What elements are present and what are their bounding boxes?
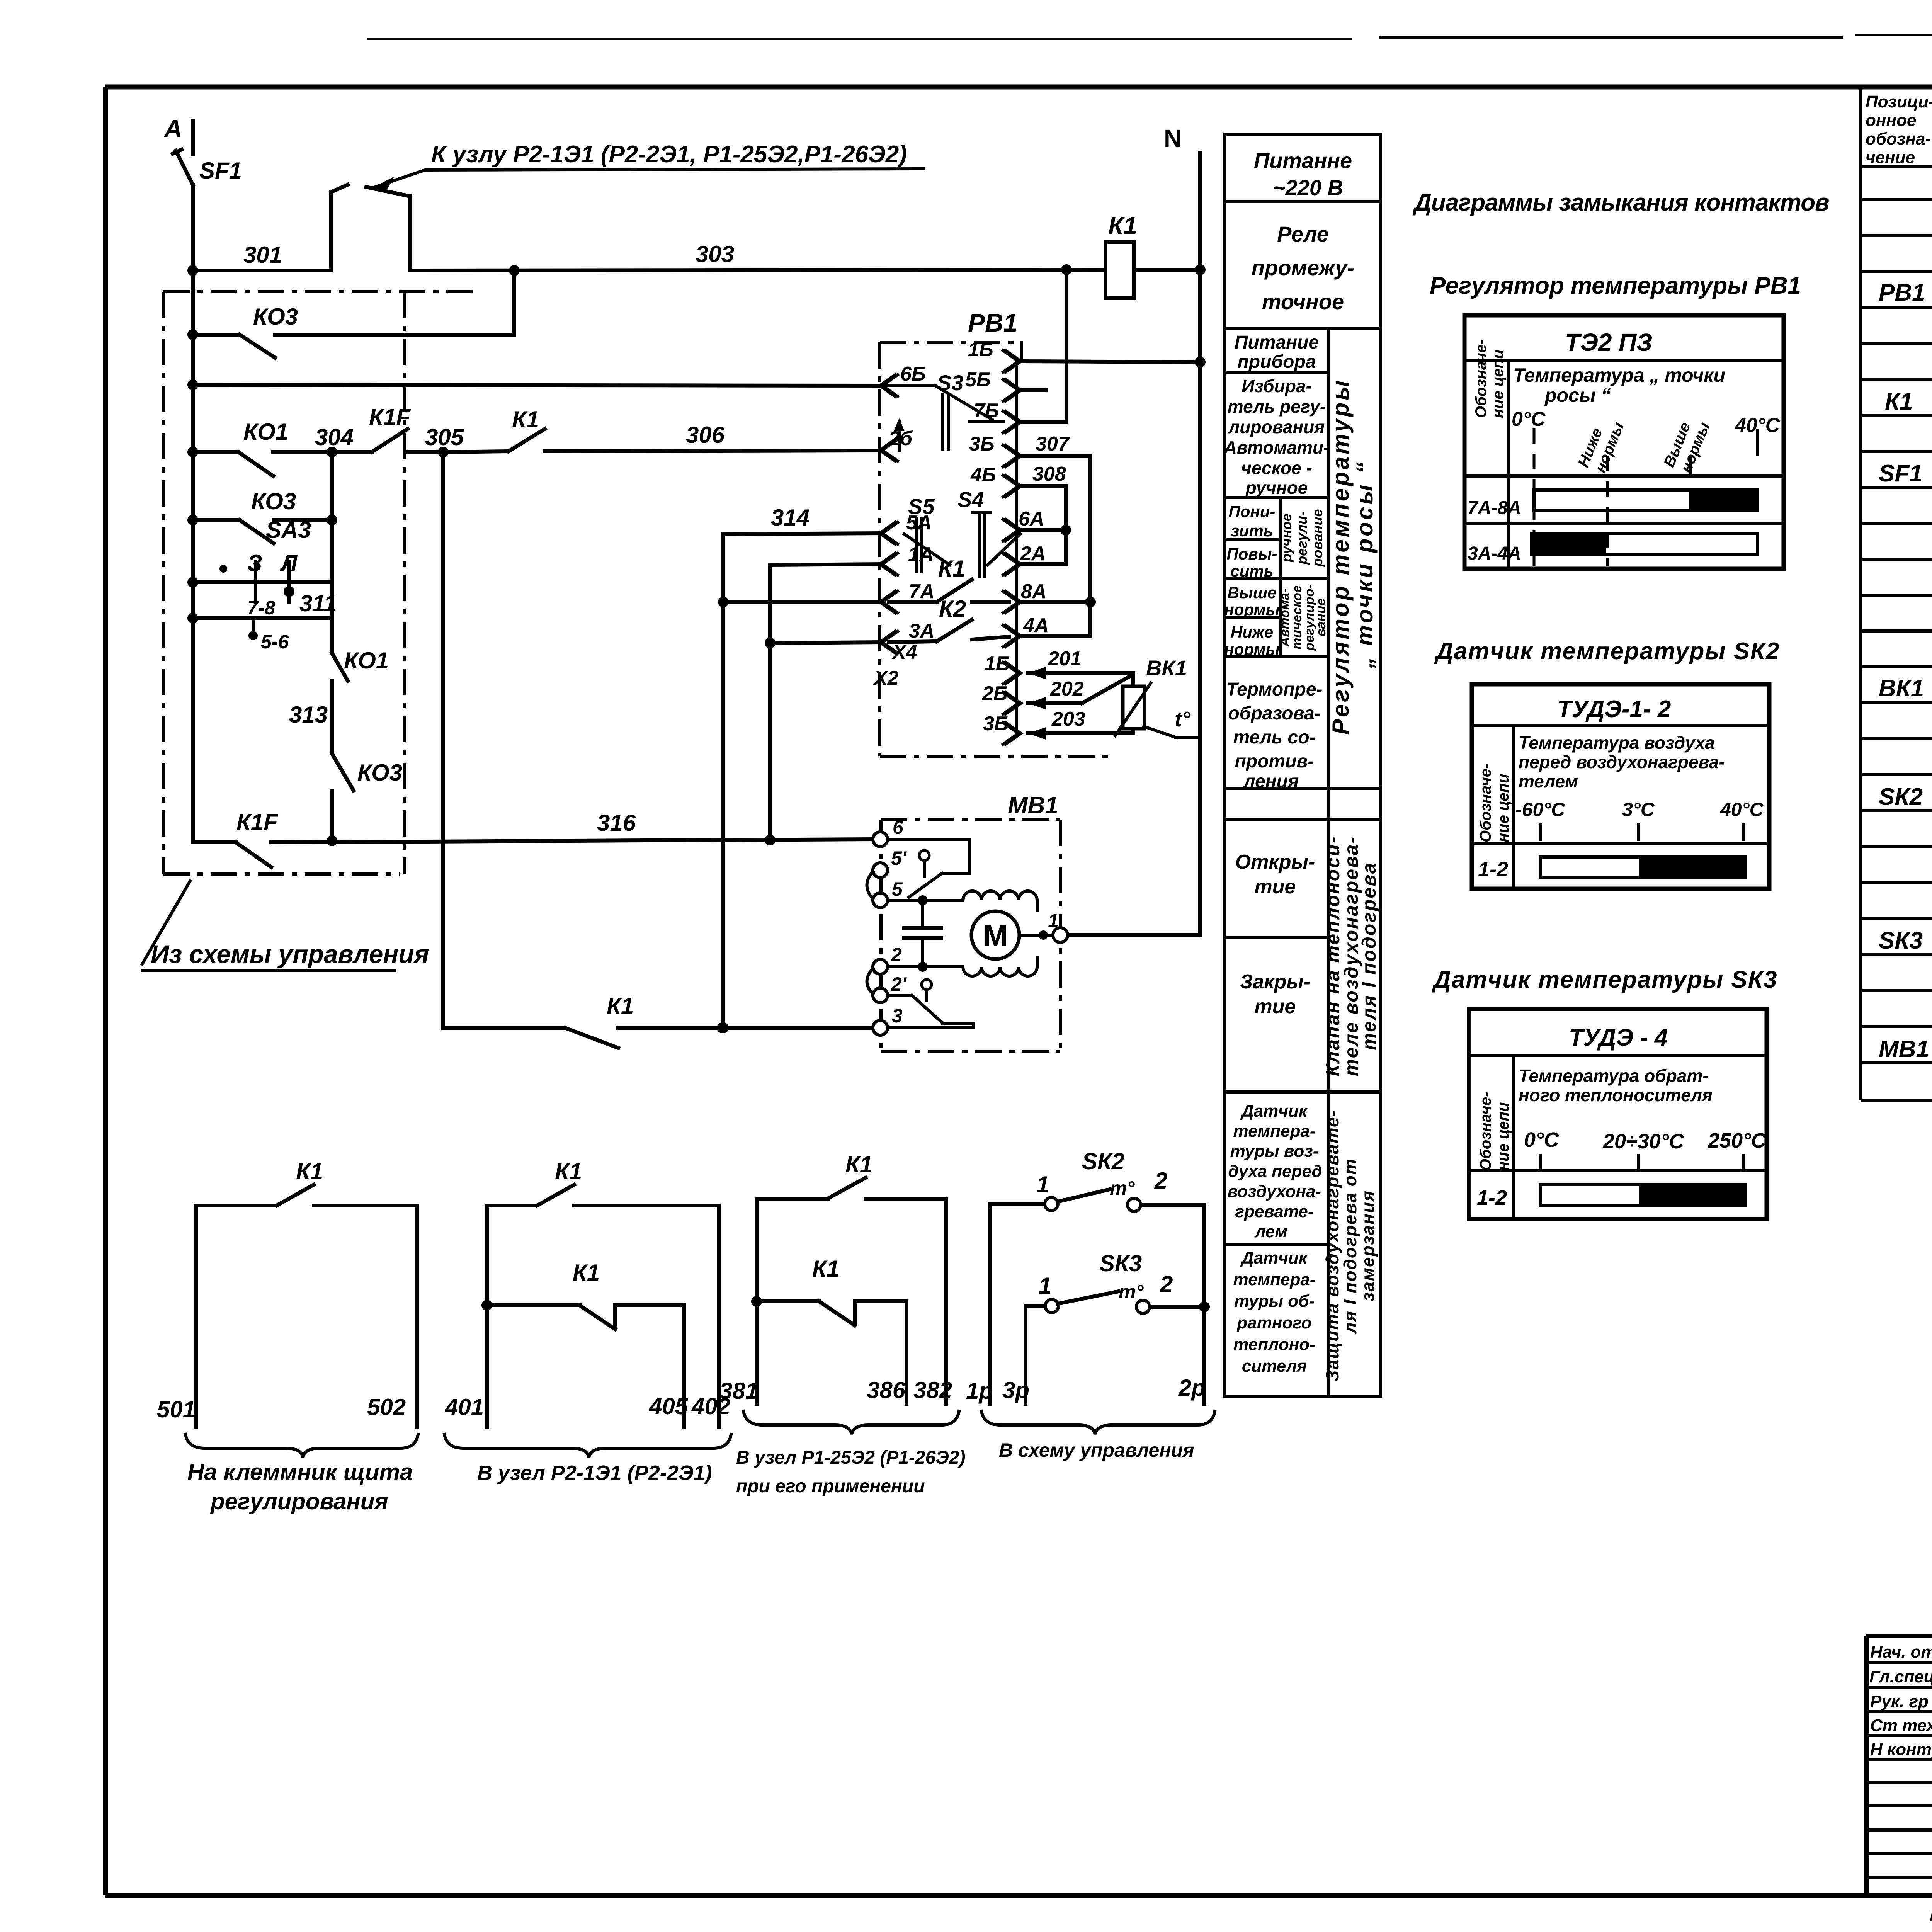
svg-text:t°: t° [1175, 707, 1191, 731]
svg-text:К1: К1 [555, 1158, 582, 1184]
middle legend table grid [1225, 134, 1381, 1396]
svg-text:К1: К1 [1108, 212, 1137, 240]
svg-text:1: 1 [1039, 1273, 1051, 1299]
svg-text:SК2: SК2 [1082, 1148, 1124, 1174]
svg-text:ления: ления [1243, 771, 1299, 792]
svg-text:КО1: КО1 [344, 648, 389, 673]
regulator РВ1 boundary [880, 308, 1113, 756]
svg-text:ние цепи: ние цепи [1490, 350, 1507, 418]
svg-text:2А: 2А [1020, 543, 1046, 565]
signature rows text [1869, 1642, 1932, 1759]
svg-text:туры воз-: туры воз- [1230, 1142, 1319, 1161]
svg-text:381: 381 [719, 1378, 758, 1404]
scan edge artifact top [367, 34, 1932, 40]
boundary dash-dot control panel [163, 292, 479, 874]
svg-text:В узел Р1-25Э2 (Р1-26Э2): В узел Р1-25Э2 (Р1-26Э2) [736, 1447, 965, 1468]
svg-text:замерзания: замерзания [1358, 1190, 1378, 1301]
svg-text:Обозначе-: Обозначе- [1473, 339, 1490, 418]
svg-text:2: 2 [891, 944, 902, 966]
svg-text:при его применении: при его применении [736, 1476, 925, 1497]
svg-text:386: 386 [867, 1377, 906, 1403]
svg-text:S5: S5 [908, 494, 935, 519]
svg-text:РВ1: РВ1 [1879, 279, 1925, 306]
callout Из схемы управления [142, 881, 429, 971]
svg-text:образова-: образова- [1228, 703, 1320, 724]
cell Открытие [1235, 851, 1315, 898]
svg-text:307: 307 [1036, 433, 1070, 455]
parts table grid [1861, 87, 1932, 1100]
svg-text:1: 1 [1036, 1172, 1049, 1197]
МВ1 terminal 5 [873, 878, 963, 908]
svg-text:502: 502 [367, 1394, 406, 1420]
wire 203 to ВК1 [1028, 708, 1133, 740]
svg-text:К1: К1 [812, 1256, 839, 1282]
wire pin 6А [1022, 525, 1071, 536]
svg-text:SF1: SF1 [199, 158, 242, 184]
svg-text:SК2: SК2 [1879, 784, 1923, 810]
title block outer [1866, 1636, 1932, 1895]
svg-text:301: 301 [243, 242, 282, 268]
wire 314 to pin 5А [723, 505, 882, 534]
svg-text:~220 В: ~220 В [1273, 175, 1343, 200]
svg-text:тие: тие [1255, 876, 1296, 898]
svg-text:3А: 3А [909, 620, 934, 642]
wire pin 4А [1022, 634, 1090, 638]
wire K1 bottom row [443, 993, 873, 1048]
wire pin 3Б 307 riser [1022, 456, 1090, 636]
svg-text:6: 6 [893, 816, 904, 838]
pin chevrons РВ1 left column [880, 375, 898, 653]
svg-text:5-6: 5-6 [261, 631, 289, 653]
svg-text:SА3: SА3 [266, 517, 311, 543]
svg-text:ТЭ2 ПЗ: ТЭ2 ПЗ [1565, 328, 1652, 356]
svg-text:1Б: 1Б [985, 653, 1010, 675]
svg-text:Рук. гр: Рук. гр [1870, 1692, 1929, 1711]
svg-text:4А: 4А [1023, 614, 1049, 637]
svg-text:телем: телем [1519, 771, 1578, 791]
cell Питание 220В [1254, 148, 1352, 200]
limit switch lower [912, 980, 974, 1028]
svg-text:2р: 2р [1178, 1375, 1206, 1401]
svg-text:лем: лем [1254, 1222, 1287, 1241]
relay coil K1 [1105, 212, 1137, 298]
header Позиционное обозначение [1866, 92, 1932, 167]
svg-text:N: N [1164, 124, 1182, 152]
wire pin 4Б 308 riser [1022, 486, 1066, 564]
svg-text:воздухона-: воздухона- [1228, 1182, 1321, 1201]
МВ1 terminal 6 [873, 816, 969, 873]
svg-text:Температура обрат-: Температура обрат- [1519, 1066, 1709, 1086]
motor M [971, 911, 1019, 959]
svg-text:Ниже: Ниже [1231, 623, 1273, 641]
wire riser 314 [718, 534, 729, 1033]
svg-text:Х4: Х4 [891, 641, 917, 663]
wire pin 1Б to N [1022, 357, 1206, 367]
svg-text:нормы: нормы [1224, 600, 1279, 619]
svg-text:К1: К1 [845, 1151, 872, 1177]
svg-text:Гл.спец.: Гл.спец. [1869, 1667, 1932, 1686]
svg-text:ческое -: ческое - [1241, 458, 1312, 478]
svg-text:КО1: КО1 [243, 419, 288, 445]
cell Выше нормы [1224, 583, 1279, 619]
cell Реле промежуточное [1252, 222, 1354, 314]
svg-text:К1: К1 [296, 1158, 323, 1184]
aux circuit SK2 SK3 [966, 1148, 1215, 1461]
cell Автоматическое регулирование (rotated) [1277, 584, 1328, 651]
svg-text:сителя: сителя [1242, 1357, 1307, 1376]
svg-text:теля I подогрева: теля I подогрева [1358, 862, 1380, 1050]
svg-text:316: 316 [597, 810, 636, 836]
svg-text:Питание: Питание [1235, 332, 1319, 353]
svg-text:3°С: 3°С [1622, 799, 1655, 820]
svg-text:Избира-: Избира- [1242, 376, 1312, 396]
svg-text:Ст техн: Ст техн [1870, 1716, 1932, 1735]
contact КО3 on 313 [332, 753, 402, 839]
svg-text:Питанне: Питанне [1254, 148, 1352, 173]
svg-text:К1F: К1F [236, 809, 278, 835]
actuator МВ1 boundary [881, 792, 1060, 1052]
svg-text:Обозначе-: Обозначе- [1477, 1092, 1494, 1171]
svg-text:обозна-: обозна- [1866, 129, 1931, 148]
МВ1 terminal 2 [873, 944, 963, 974]
копировал + signature [1930, 1903, 1932, 1926]
svg-text:ТУДЭ - 4: ТУДЭ - 4 [1569, 1024, 1668, 1051]
capacitor МВ1 [904, 900, 941, 966]
svg-text:20÷30°С: 20÷30°С [1602, 1130, 1684, 1153]
svg-text:ратного: ратного [1236, 1313, 1311, 1332]
svg-text:304: 304 [315, 424, 354, 450]
cell Закрытие [1240, 971, 1310, 1018]
breaker SF1 [173, 150, 242, 185]
svg-text:1-2: 1-2 [1477, 1186, 1507, 1209]
svg-text:сить: сить [1230, 562, 1273, 580]
svg-text:SК3: SК3 [1099, 1250, 1142, 1276]
svg-text:201: 201 [1048, 648, 1082, 670]
svg-text:Датчик температуры SК2: Датчик температуры SК2 [1434, 638, 1780, 665]
svg-text:регули-: регули- [1294, 511, 1310, 565]
svg-text:S4: S4 [957, 487, 984, 512]
svg-text:2': 2' [891, 973, 907, 995]
svg-text:Н контр: Н контр [1870, 1740, 1932, 1759]
svg-text:Датчик температуры SК3: Датчик температуры SК3 [1432, 966, 1777, 993]
svg-text:Нач. отд: Нач. отд [1870, 1643, 1932, 1662]
svg-text:копировал: копировал [1930, 1903, 1932, 1926]
svg-text:203: 203 [1051, 708, 1085, 730]
svg-text:А: А [163, 115, 182, 143]
svg-text:ного теплоносителя: ного теплоносителя [1519, 1085, 1713, 1105]
svg-text:Пони-: Пони- [1229, 502, 1276, 520]
svg-text:4Б: 4Б [970, 464, 996, 486]
cell ручное регулирование (rotated) [1279, 509, 1325, 567]
svg-text:рование: рование [1310, 509, 1325, 567]
svg-text:Термопре-: Термопре- [1226, 679, 1322, 700]
node 304 [315, 424, 354, 457]
svg-text:313: 313 [289, 702, 328, 728]
svg-text:ние цепи: ние цепи [1495, 774, 1512, 842]
svg-text:305: 305 [425, 424, 464, 450]
svg-text:ТУДЭ-1- 2: ТУДЭ-1- 2 [1557, 696, 1671, 723]
svg-text:ручное: ручное [1279, 514, 1294, 563]
svg-text:ВК1: ВК1 [1146, 656, 1187, 680]
wire pin 2А [1022, 562, 1066, 566]
svg-text:6Б: 6Б [900, 363, 926, 385]
svg-text:перед воздухонагрева-: перед воздухонагрева- [1519, 752, 1725, 772]
motor winding upper [963, 891, 1037, 910]
svg-text:Датчик: Датчик [1240, 1248, 1308, 1267]
pin labels РВ1 [873, 338, 1070, 735]
svg-text:6А: 6А [1019, 508, 1044, 530]
svg-text:т°: т° [1110, 1177, 1135, 1199]
svg-text:SF1: SF1 [1879, 460, 1923, 487]
thermistor ВК1 [1115, 656, 1201, 737]
svg-text:нормы: нормы [1224, 640, 1279, 658]
svg-text:темпера-: темпера- [1233, 1270, 1316, 1289]
svg-text:К1: К1 [512, 406, 539, 432]
cell Повысить [1226, 545, 1277, 580]
svg-text:КО3: КО3 [357, 760, 402, 786]
svg-text:5: 5 [892, 878, 903, 900]
svg-text:КО3: КО3 [253, 304, 298, 330]
svg-text:SК3: SК3 [1879, 927, 1923, 954]
node junction at N bus [1195, 264, 1206, 275]
cell Датчик температуры обратного [1233, 1248, 1316, 1376]
svg-text:Датчик: Датчик [1240, 1102, 1308, 1121]
svg-text:духа перед: духа перед [1228, 1162, 1322, 1181]
svg-text:3: 3 [892, 1005, 903, 1027]
aux circuit 401-405-402 [444, 1158, 731, 1485]
wire pin 7Б riser to 303 [1022, 264, 1072, 422]
svg-text:лирования: лирования [1228, 417, 1325, 437]
wire 6Б feed [187, 379, 882, 390]
svg-text:зить: зить [1231, 522, 1273, 540]
svg-text:против-: против- [1235, 751, 1314, 772]
svg-text:К2: К2 [939, 596, 966, 622]
node junction 301 [187, 265, 198, 276]
svg-text:2: 2 [1160, 1271, 1173, 1297]
svg-text:7А-8А: 7А-8А [1468, 498, 1521, 518]
svg-text:Х2: Х2 [873, 667, 899, 689]
svg-text:ВК1: ВК1 [1879, 675, 1924, 702]
limit switch upper [909, 850, 942, 897]
svg-text:онное: онное [1866, 111, 1916, 130]
svg-text:Повы-: Повы- [1226, 545, 1277, 563]
svg-text:Закры-: Закры- [1240, 971, 1310, 993]
svg-text:Откры-: Откры- [1235, 851, 1315, 873]
node branch to К узлу [331, 185, 410, 270]
МВ1 terminal 1 [1019, 910, 1068, 942]
svg-text:8А: 8А [1021, 580, 1046, 603]
svg-text:На клеммник щита: На клеммник щита [187, 1459, 413, 1485]
svg-text:Регулятор температуры: Регулятор температуры [1328, 378, 1354, 735]
wire callout К узлу Р2-131 [372, 141, 923, 190]
wire coil K1 to N [1134, 268, 1200, 272]
wire phase A drop [191, 121, 195, 155]
svg-text:1-2: 1-2 [1478, 858, 1508, 881]
cell Защита воздухонагревателя (rotated) [1322, 1110, 1378, 1382]
svg-text:202: 202 [1050, 678, 1084, 700]
svg-text:теплоно-: теплоно- [1233, 1335, 1315, 1354]
svg-text:регулирования: регулирования [210, 1488, 388, 1514]
node 305 [425, 424, 464, 457]
wire riser 1А [765, 565, 776, 840]
cell Питание прибора [1235, 332, 1319, 372]
svg-text:501: 501 [157, 1396, 196, 1422]
svg-text:1р: 1р [966, 1378, 993, 1404]
svg-text:гревате-: гревате- [1235, 1202, 1314, 1221]
wire vertical 313 branch [330, 452, 334, 653]
svg-text:Выше: Выше [1228, 583, 1277, 602]
svg-text:Диаграммы замыкания контакто: Диаграммы замыкания контактов [1412, 189, 1829, 216]
signature table grid [1866, 1636, 1932, 1895]
svg-text:ние цепи: ние цепи [1495, 1102, 1512, 1171]
svg-text:314: 314 [771, 505, 810, 531]
contact К1F row305 [332, 404, 443, 452]
svg-text:Обозначе-: Обозначе- [1477, 764, 1494, 843]
pin chevrons РВ1 right column [1003, 350, 1021, 744]
cell Регулятор температуры точки росы (rotated) [1328, 378, 1378, 735]
aux circuit 381-386-382 [719, 1151, 965, 1497]
cell Ниже нормы [1224, 623, 1279, 658]
contact КО1 on 313 [289, 648, 389, 753]
wire 3А К2 4А [770, 596, 1009, 643]
svg-text:401: 401 [445, 1394, 484, 1420]
svg-text:прибора: прибора [1237, 352, 1316, 372]
svg-text:промежу-: промежу- [1252, 255, 1354, 280]
switch S5 inside РВ1 [904, 494, 950, 571]
svg-text:5Б: 5Б [965, 369, 991, 391]
wire to pin 1А [770, 564, 882, 565]
svg-text:К1: К1 [1885, 388, 1913, 415]
svg-text:3А-4А: 3А-4А [1468, 543, 1521, 564]
contact К1 row306 [443, 406, 882, 452]
svg-text:ручное: ручное [1245, 478, 1308, 498]
svg-text:3р: 3р [1002, 1377, 1029, 1403]
wire 7А К1 8А [723, 556, 1009, 602]
cell Избиратель регулирования [1224, 376, 1330, 498]
switch SA3 [187, 517, 332, 619]
svg-text:Температура воздуха: Температура воздуха [1519, 733, 1715, 753]
wire N bus [1198, 153, 1202, 935]
diagram table ТУДЭ-4 [1469, 1009, 1767, 1219]
contact КО3 lower [187, 488, 337, 543]
svg-text:3Б: 3Б [983, 713, 1009, 735]
node junction 313/316 [327, 835, 337, 846]
node junction 1А riser/316 [765, 835, 776, 845]
svg-text:туры об-: туры об- [1234, 1292, 1315, 1311]
cell Датчик температуры воздуха [1228, 1102, 1322, 1241]
contact КО1 row304 [187, 419, 332, 476]
wire left bus [191, 185, 195, 842]
svg-text:вание: вание [1314, 598, 1328, 636]
svg-text:росы “: росы “ [1544, 384, 1611, 406]
wire 201 to ВК1 [1028, 648, 1133, 686]
wire 202 to ВК1 [1028, 675, 1131, 709]
wire pin 8А [1022, 597, 1096, 607]
svg-text:КО3: КО3 [251, 488, 296, 514]
svg-text:Автомати-: Автомати- [1224, 437, 1330, 457]
svg-text:7А: 7А [909, 580, 934, 603]
svg-text:К1: К1 [607, 993, 634, 1019]
svg-text:М: М [983, 918, 1008, 952]
cell Клапан на теплоносителе (rotated) [1322, 836, 1380, 1077]
aux circuit 501-502 [157, 1158, 418, 1514]
svg-text:ля I подогрева от: ля I подогрева от [1340, 1158, 1360, 1334]
svg-text:382: 382 [913, 1377, 952, 1403]
svg-text:Реле: Реле [1277, 222, 1329, 246]
svg-text:К узлу Р2-1Э1 (Р2-2Э1, Р1-25Э2: К узлу Р2-1Э1 (Р2-2Э1, Р1-25Э2,Р1-26Э2) [431, 141, 907, 168]
svg-text:Температура „ точки: Температура „ точки [1513, 364, 1725, 386]
svg-text:2: 2 [1154, 1168, 1167, 1194]
svg-text:МВ1: МВ1 [1008, 792, 1058, 819]
svg-text:МВ1: МВ1 [1879, 1036, 1929, 1063]
svg-text:чение: чение [1866, 148, 1915, 167]
wire riser 305 to K1 row [441, 452, 445, 1028]
node junction 303/KO3 riser [509, 265, 520, 276]
svg-text:303: 303 [696, 241, 734, 267]
МВ1 terminal 3 [873, 1005, 974, 1035]
switch S4 inside РВ1 [957, 487, 1020, 577]
svg-text:темпера-: темпера- [1233, 1122, 1316, 1141]
svg-text:тель регу-: тель регу- [1228, 396, 1326, 417]
svg-text:1Б: 1Б [968, 338, 993, 361]
svg-text:3Б: 3Б [969, 433, 995, 455]
svg-text:405: 405 [649, 1393, 689, 1419]
svg-text:250°С: 250°С [1708, 1129, 1767, 1152]
svg-text:Из схемы управления: Из схемы управления [151, 940, 429, 968]
wire pin 5Б stub [1022, 388, 1046, 392]
svg-text:5': 5' [891, 847, 907, 869]
svg-text:Регулятор температуры РВ1: Регулятор температуры РВ1 [1430, 272, 1801, 299]
wire 301 [193, 242, 331, 270]
svg-text:0°С: 0°С [1524, 1128, 1560, 1151]
svg-text:тие: тие [1255, 995, 1296, 1018]
МВ1 terminal 2' [867, 968, 912, 1003]
svg-text:„ точки росы “: „ точки росы “ [1352, 460, 1378, 669]
wire МВ1 1 to N [1068, 933, 1200, 937]
svg-text:точное: точное [1262, 289, 1344, 314]
svg-text:В схему управления: В схему управления [999, 1439, 1194, 1461]
svg-text:308: 308 [1032, 463, 1066, 485]
cell Понизить [1229, 502, 1276, 540]
svg-text:2Б: 2Б [982, 682, 1008, 705]
МВ1 terminal 5' [867, 847, 907, 899]
pin 2б up arrow [894, 418, 905, 450]
wire 311 [187, 590, 337, 653]
diagram table ТЭ2 ПЗ [1464, 315, 1784, 569]
svg-text:Защита воздухонагревате-: Защита воздухонагревате- [1322, 1110, 1342, 1382]
svg-text:РВ1: РВ1 [968, 308, 1017, 337]
motor winding lower [963, 957, 1037, 976]
svg-text:0°С: 0°С [1512, 408, 1546, 430]
svg-text:-60°С: -60°С [1515, 799, 1565, 820]
switch S3 inside РВ1 [882, 371, 1003, 449]
contact КО3 upper [187, 304, 514, 358]
svg-text:S3: S3 [937, 371, 964, 395]
svg-text:В узел Р2-1Э1 (Р2-2Э1): В узел Р2-1Э1 (Р2-2Э1) [477, 1461, 712, 1485]
svg-text:306: 306 [686, 422, 725, 448]
svg-text:1: 1 [1048, 910, 1059, 932]
svg-text:7-8: 7-8 [247, 597, 275, 619]
svg-text:тель со-: тель со- [1233, 727, 1315, 748]
svg-text:К1: К1 [573, 1260, 600, 1286]
cell Термопреобразователь [1226, 679, 1322, 792]
wire 303 [410, 241, 1105, 270]
contact К1F row316 [193, 809, 873, 867]
wire riser 303 to KO3 row [512, 270, 516, 335]
svg-text:Позици-: Позици- [1866, 92, 1932, 111]
diagram table ТУДЭ-1-2 [1472, 684, 1769, 889]
svg-text:40°С: 40°С [1720, 799, 1764, 820]
